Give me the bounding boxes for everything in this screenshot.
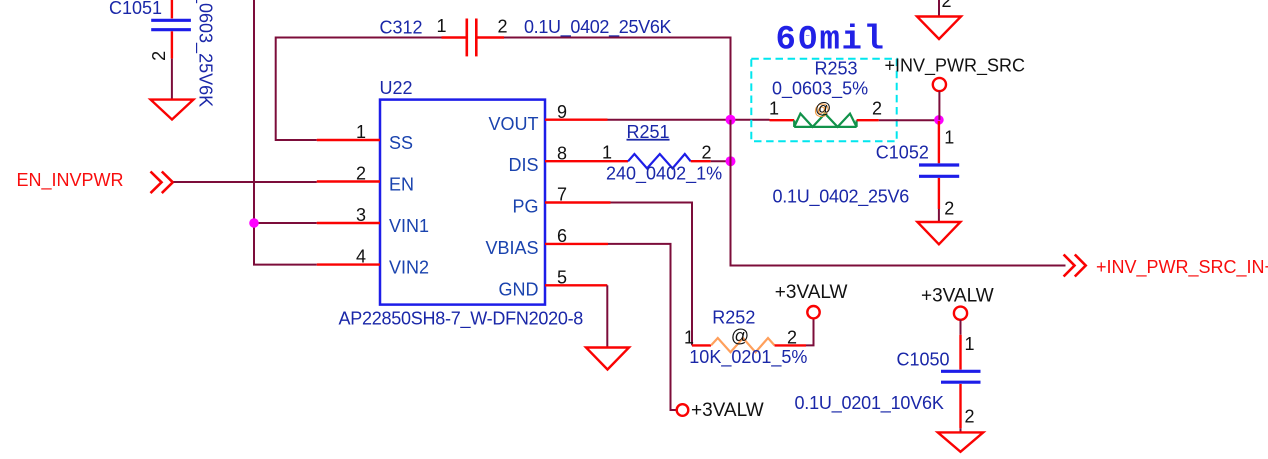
- svg-text:VIN2: VIN2: [389, 257, 429, 277]
- svg-text:3: 3: [356, 205, 366, 225]
- zigzag: [628, 154, 691, 168]
- svg-text:1: 1: [769, 99, 779, 119]
- svg-text:4: 4: [356, 246, 366, 266]
- lead 1: [770, 119, 795, 121]
- svg-text:@: @: [815, 100, 831, 117]
- wire R253 pin2 to +INV_PWR_SRC node: [879, 119, 939, 121]
- pin 2 stub: [478, 36, 505, 38]
- svg-text:2: 2: [942, 0, 952, 11]
- svg-text:AP22850SH8-7_W-DFN2020-8: AP22850SH8-7_W-DFN2020-8: [339, 308, 584, 329]
- svg-text:2: 2: [787, 327, 797, 347]
- wire VBIAS net (pin 6 down to +3VALW): [608, 244, 677, 410]
- wire SS net (from C312 pin1 corner down to SS pin): [276, 38, 442, 141]
- ground (C1051): [151, 100, 194, 120]
- svg-text:U22: U22: [380, 78, 413, 98]
- pin 2 stub of C1051: [171, 31, 173, 58]
- junction node +INV_PWR_SRC: [934, 115, 944, 125]
- svg-text:_0603_25V6K: _0603_25V6K: [195, 0, 216, 107]
- svg-text:60mil: 60mil: [776, 22, 886, 60]
- svg-text:8: 8: [557, 143, 567, 163]
- svg-text:VIN1: VIN1: [389, 216, 429, 236]
- pin 4 VIN2: [317, 263, 380, 265]
- svg-text:2: 2: [944, 199, 954, 219]
- svg-text:VBIAS: VBIAS: [485, 238, 538, 258]
- svg-text:10K_0201_5%: 10K_0201_5%: [689, 347, 807, 368]
- resistor R252: [684, 308, 807, 368]
- svg-text:2: 2: [702, 143, 712, 163]
- capacitor C1051: [109, 0, 216, 107]
- ground (U22 GND): [586, 348, 629, 370]
- svg-text:GND: GND: [499, 279, 539, 299]
- svg-text:2: 2: [872, 99, 882, 119]
- pin 1 SS: [317, 139, 380, 141]
- svg-text:SS: SS: [389, 133, 413, 153]
- svg-text:VOUT: VOUT: [488, 114, 538, 134]
- pin 3 VIN1: [317, 222, 380, 224]
- pin 1 stub: [959, 335, 961, 370]
- svg-text:2: 2: [498, 17, 508, 37]
- svg-text:1: 1: [356, 122, 366, 142]
- svg-text:EN_INVPWR: EN_INVPWR: [17, 170, 124, 191]
- svg-text:2: 2: [965, 406, 975, 426]
- lead 1: [608, 160, 629, 162]
- capacitor C1051 plates: [151, 19, 191, 22]
- svg-text:+3VALW: +3VALW: [691, 400, 764, 421]
- svg-text:R253: R253: [815, 59, 858, 79]
- svg-text:C1051: C1051: [109, 0, 162, 18]
- chevron: [151, 172, 162, 194]
- wire C1052 to ground: [938, 209, 940, 223]
- ground (C1050): [938, 432, 983, 451]
- pin 1 stub: [938, 121, 940, 163]
- lead 2: [775, 344, 807, 346]
- svg-text:1: 1: [944, 128, 954, 148]
- wire C1050 to ground: [960, 428, 962, 433]
- wire GND net (pin 5 down to ground): [606, 285, 608, 348]
- wire top-right to ground: [938, 0, 940, 17]
- svg-text:1: 1: [684, 327, 694, 347]
- wire C1051 to ground: [171, 59, 173, 100]
- pin 5 GND: [545, 284, 607, 286]
- pin 1 stub: [442, 36, 466, 38]
- junction node VOUT/C312: [726, 115, 736, 125]
- svg-text:C1052: C1052: [876, 143, 929, 163]
- svg-text:2: 2: [356, 163, 366, 183]
- svg-text:+INV_PWR_SRC: +INV_PWR_SRC: [885, 56, 1026, 77]
- svg-text:1: 1: [437, 16, 447, 36]
- wire terminal to C1050: [960, 320, 962, 335]
- svg-text:DIS: DIS: [508, 155, 538, 175]
- dashed highlight box around R253: [751, 59, 896, 141]
- capacitor C1052: [773, 121, 960, 219]
- pin 2 stub: [959, 384, 961, 428]
- svg-text:+3VALW: +3VALW: [921, 286, 994, 307]
- wire vertical net at x=254 (to VIN1/VIN2): [254, 0, 317, 265]
- zigzag (orange): [711, 338, 775, 352]
- wire output net vertical and horizontal to port: [731, 120, 1066, 266]
- junction node at VIN1 branch: [249, 218, 259, 228]
- lead 2: [691, 160, 711, 162]
- svg-text:7: 7: [557, 185, 567, 205]
- lead 1: [692, 344, 711, 346]
- pin 7 PG: [545, 201, 611, 203]
- svg-text:@: @: [731, 326, 749, 346]
- lead 2: [857, 119, 879, 121]
- resistor R251: [602, 122, 722, 185]
- wire branch to VIN1: [254, 222, 317, 224]
- pin 9 VOUT: [545, 118, 608, 120]
- plates: [941, 370, 981, 373]
- wire PG net (pin 7 down to R252 pin 1): [611, 203, 693, 346]
- resistor R253: [769, 59, 882, 127]
- ground (C1052): [917, 222, 960, 244]
- body: baseline and zigzag (green): [794, 114, 856, 127]
- svg-text:1: 1: [602, 143, 612, 163]
- junction node DIS/R251: [726, 156, 736, 166]
- svg-text:1: 1: [965, 334, 975, 354]
- ground (top-right): [917, 17, 961, 40]
- power terminal +3VALW (VBIAS): [677, 400, 764, 421]
- svg-text:C1050: C1050: [897, 350, 950, 370]
- svg-text:EN: EN: [389, 175, 414, 195]
- pin 6 VBIAS: [545, 243, 608, 245]
- pin 2 stub: [938, 178, 940, 209]
- port EN_INVPWR: [17, 170, 173, 193]
- power terminal +3VALW (C1050): [921, 286, 994, 320]
- svg-text:5: 5: [557, 267, 567, 287]
- wire terminal to node: [938, 91, 940, 120]
- wire EN net: [174, 181, 317, 183]
- svg-text:0.1U_0402_25V6K: 0.1U_0402_25V6K: [524, 17, 672, 38]
- plates: [919, 163, 959, 166]
- IC U22: [317, 78, 611, 329]
- port +INV_PWR_SRC_IN+: [1064, 255, 1268, 279]
- svg-text:C312: C312: [380, 18, 423, 38]
- svg-text:+3VALW: +3VALW: [775, 282, 848, 303]
- power terminal +3VALW (R252): [775, 282, 848, 318]
- svg-text:0_0603_5%: 0_0603_5%: [772, 79, 868, 100]
- wire C312 pin2 to VOUT node: [504, 38, 731, 119]
- svg-text:0.1U_0201_10V6K: 0.1U_0201_10V6K: [795, 393, 944, 414]
- svg-text:R252: R252: [712, 308, 755, 328]
- capacitor C1050: [795, 334, 981, 428]
- svg-text:PG: PG: [512, 197, 538, 217]
- pin 8 DIS: [545, 160, 608, 162]
- power terminal +INV_PWR_SRC: [885, 56, 1026, 120]
- svg-text:+INV_PWR_SRC_IN+: +INV_PWR_SRC_IN+: [1096, 257, 1268, 278]
- wire VOUT net (pin 9 to R253): [608, 119, 770, 121]
- svg-text:9: 9: [557, 102, 567, 122]
- wire R251 pin2 to node: [711, 160, 731, 162]
- svg-text:0.1U_0402_25V6: 0.1U_0402_25V6: [773, 186, 910, 207]
- pin 2 EN: [317, 180, 380, 182]
- svg-text:2: 2: [149, 51, 169, 61]
- wire R252 pin2 up to +3VALW terminal: [806, 319, 814, 346]
- plates (red): [465, 19, 468, 57]
- svg-text:6: 6: [557, 226, 567, 246]
- capacitor C312: [380, 16, 672, 56]
- wire (pin 1 stub of C1051, top): [171, 0, 173, 18]
- svg-text:240_0402_1%: 240_0402_1%: [606, 164, 722, 185]
- svg-text:R251: R251: [627, 122, 670, 142]
